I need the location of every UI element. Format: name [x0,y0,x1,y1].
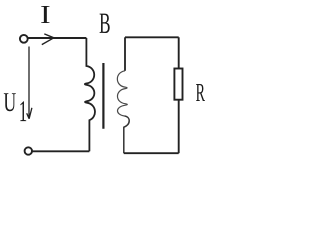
wire (right side, top of resistor) [178,37,180,68]
label R [196,84,205,101]
wire (secondary top) [125,36,179,38]
wire (bottom-left, primary to terminal) [32,150,89,152]
wire (right side, bottom of resistor) [178,100,180,154]
current arrow I [42,34,54,45]
label 1 (subscript) [20,101,26,121]
label I [41,6,49,23]
label U [4,93,16,111]
label B (transformer) [100,14,110,33]
primary winding of transformer B [85,38,95,151]
wire (top, terminal to transformer primary) [28,37,87,39]
terminal (bottom-left input) [25,147,32,154]
voltage arrow U1 (pointing down) [27,47,32,119]
resistor R [174,69,182,100]
transformer core [102,63,104,129]
wire (secondary bottom) [124,152,179,154]
terminal (top-left input) [20,35,28,43]
secondary winding of transformer B [124,37,126,71]
